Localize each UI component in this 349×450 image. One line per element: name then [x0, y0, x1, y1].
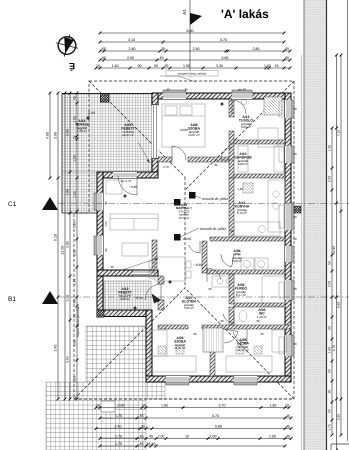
svg-text:Rejtett medergerenda: Rejtett medergerenda	[76, 306, 80, 337]
svg-text:5.80: 5.80	[222, 56, 229, 60]
svg-text:1.80: 1.80	[270, 403, 277, 407]
svg-text:1.75: 1.75	[115, 434, 122, 438]
svg-text:-0,03: -0,03	[87, 111, 94, 115]
svg-text:3.10: 3.10	[128, 38, 135, 42]
svg-text:45: 45	[152, 442, 156, 446]
svg-text:30: 30	[214, 163, 218, 167]
svg-text:monolit vb. pillér: monolit vb. pillér	[200, 227, 227, 231]
svg-text:2.66: 2.66	[127, 56, 134, 60]
svg-text:95: 95	[328, 390, 332, 394]
svg-text:80: 80	[256, 319, 260, 323]
svg-text:2.05: 2.05	[66, 295, 70, 302]
svg-text:45: 45	[160, 56, 164, 60]
svg-text:11.00: 11.00	[61, 246, 65, 255]
svg-text:3.60: 3.60	[66, 356, 70, 363]
svg-text:65: 65	[102, 56, 106, 60]
svg-text:5,00 m²: 5,00 m²	[232, 259, 242, 263]
svg-text:8.60: 8.60	[337, 302, 341, 309]
svg-text:12,47 m²: 12,47 m²	[237, 348, 249, 352]
svg-text:1.55: 1.55	[73, 191, 77, 198]
svg-text:7.10: 7.10	[337, 130, 341, 137]
svg-text:65: 65	[102, 47, 106, 51]
svg-text:É: É	[69, 61, 75, 71]
svg-text:2.00: 2.00	[158, 434, 165, 438]
svg-text:90: 90	[293, 287, 297, 291]
svg-text:1.85: 1.85	[73, 376, 77, 383]
svg-text:2.80: 2.80	[129, 47, 136, 51]
svg-text:2.80: 2.80	[253, 47, 260, 51]
svg-text:10: 10	[142, 403, 146, 407]
svg-text:30: 30	[141, 424, 145, 428]
svg-text:45: 45	[286, 434, 290, 438]
svg-text:+0,30: +0,30	[194, 263, 202, 267]
svg-text:2.85: 2.85	[66, 241, 70, 248]
svg-text:5.80: 5.80	[215, 424, 222, 428]
svg-text:12,97 m²: 12,97 m²	[122, 133, 134, 137]
svg-text:15: 15	[73, 136, 77, 140]
svg-text:45: 45	[73, 96, 77, 100]
svg-text:45: 45	[140, 434, 144, 438]
svg-text:3.30: 3.30	[216, 64, 223, 68]
svg-text:45: 45	[140, 442, 144, 446]
svg-text:4.70: 4.70	[332, 345, 336, 352]
svg-text:90: 90	[110, 265, 114, 269]
svg-text:3.95: 3.95	[66, 129, 70, 136]
svg-text:30: 30	[161, 47, 165, 51]
svg-text:65: 65	[285, 56, 289, 60]
svg-text:±0,00: ±0,00	[183, 237, 191, 241]
svg-text:1.60: 1.60	[269, 434, 276, 438]
svg-text:2.05: 2.05	[118, 403, 125, 407]
svg-text:45: 45	[73, 300, 77, 304]
svg-text:1.75: 1.75	[115, 414, 122, 418]
svg-text:1.40: 1.40	[73, 279, 77, 286]
svg-text:3,80 m²: 3,80 m²	[238, 162, 248, 166]
svg-text:90: 90	[260, 332, 264, 336]
svg-text:15: 15	[275, 64, 279, 68]
svg-text:90: 90	[293, 107, 297, 111]
svg-text:3,06 m²: 3,06 m²	[241, 125, 251, 129]
svg-text:10: 10	[185, 434, 189, 438]
svg-text:90: 90	[208, 287, 212, 291]
svg-text:1.60: 1.60	[73, 340, 77, 347]
svg-text:1.40: 1.40	[237, 187, 243, 191]
svg-text:4,00 m²: 4,00 m²	[120, 297, 130, 301]
svg-text:10: 10	[285, 403, 289, 407]
svg-text:1,40 m²: 1,40 m²	[257, 315, 267, 319]
svg-text:2.40: 2.40	[115, 424, 122, 428]
svg-text:1.75: 1.75	[328, 424, 332, 431]
svg-text:1.00: 1.00	[104, 221, 108, 227]
svg-text:65: 65	[154, 64, 158, 68]
svg-text:50: 50	[328, 369, 332, 373]
svg-text:1.55: 1.55	[264, 64, 271, 68]
svg-text:45: 45	[147, 442, 151, 446]
svg-text:1.80: 1.80	[161, 403, 168, 407]
svg-text:A1: A1	[182, 9, 187, 15]
svg-text:2.85: 2.85	[337, 414, 341, 421]
svg-text:1.55: 1.55	[183, 64, 190, 68]
svg-text:65: 65	[285, 47, 289, 51]
svg-text:C1: C1	[8, 201, 17, 208]
svg-text:90: 90	[104, 201, 108, 205]
svg-text:50: 50	[328, 409, 332, 413]
svg-text:pm 30: pm 30	[238, 88, 246, 92]
svg-text:13,87 m²: 13,87 m²	[188, 133, 200, 137]
svg-text:1.60: 1.60	[328, 347, 332, 354]
svg-text:1.30: 1.30	[73, 222, 77, 229]
svg-text:5,06 m²: 5,06 m²	[184, 306, 194, 310]
svg-text:90: 90	[138, 64, 142, 68]
svg-text:90: 90	[166, 88, 170, 92]
svg-text:45: 45	[149, 434, 153, 438]
svg-text:6,47 m²: 6,47 m²	[236, 293, 246, 297]
svg-text:2.00: 2.00	[210, 434, 217, 438]
svg-text:2.00: 2.00	[328, 176, 332, 183]
svg-text:90: 90	[104, 248, 108, 252]
svg-text:+0,30: +0,30	[129, 185, 137, 189]
svg-text:B1: B1	[8, 296, 16, 303]
svg-text:80: 80	[220, 319, 224, 323]
svg-text:1.80: 1.80	[73, 155, 77, 162]
svg-text:8.80: 8.80	[187, 29, 194, 33]
svg-text:45: 45	[286, 424, 290, 428]
svg-text:60: 60	[230, 229, 234, 233]
svg-text:am 2.70: am 2.70	[121, 179, 132, 183]
svg-text:60: 60	[293, 152, 297, 156]
svg-text:1.55: 1.55	[73, 116, 77, 123]
svg-text:3.70: 3.70	[219, 403, 226, 407]
svg-text:1.30: 1.30	[73, 250, 77, 257]
svg-text:-0,03: -0,03	[135, 296, 142, 300]
svg-text:45: 45	[286, 414, 290, 418]
svg-text:4.00: 4.00	[46, 132, 50, 139]
svg-text:1.90: 1.90	[328, 145, 332, 152]
svg-text:6.70: 6.70	[212, 414, 219, 418]
svg-text:31.90: 31.90	[332, 246, 336, 254]
svg-text:1.40: 1.40	[112, 64, 119, 68]
svg-text:7,90 m²: 7,90 m²	[77, 129, 87, 133]
svg-text:35: 35	[165, 64, 169, 68]
svg-text:5.15: 5.15	[54, 234, 58, 241]
svg-text:50: 50	[328, 326, 332, 330]
svg-text:15: 15	[96, 64, 100, 68]
svg-text:1.75: 1.75	[115, 442, 122, 446]
svg-text:±0,00: ±0,00	[180, 128, 188, 132]
svg-text:30: 30	[184, 88, 188, 92]
svg-text:3.95: 3.95	[54, 132, 58, 139]
svg-text:1.95: 1.95	[66, 189, 70, 196]
svg-text:60: 60	[293, 237, 297, 241]
svg-text:3.45: 3.45	[54, 345, 58, 352]
svg-text:95: 95	[73, 314, 77, 318]
svg-text:90: 90	[293, 342, 297, 346]
svg-text:6,76 m²: 6,76 m²	[237, 211, 247, 215]
svg-text:50: 50	[328, 261, 332, 265]
svg-text:'A' lakás: 'A' lakás	[221, 7, 269, 21]
svg-text:90: 90	[193, 332, 197, 336]
svg-text:60: 60	[293, 215, 297, 219]
svg-text:45: 45	[140, 414, 144, 418]
svg-text:11,87 m²: 11,87 m²	[174, 346, 186, 350]
svg-text:10: 10	[96, 403, 100, 407]
svg-text:szegett hőszig. vakolat: szegett hőszig. vakolat	[178, 72, 207, 76]
svg-text:3.00: 3.00	[328, 281, 332, 288]
svg-text:2.90: 2.90	[193, 47, 200, 51]
svg-text:2.70: 2.70	[163, 165, 169, 169]
svg-text:monolit vb. pillér: monolit vb. pillér	[202, 197, 229, 201]
svg-text:6.70: 6.70	[220, 38, 227, 42]
svg-text:25,04 m²: 25,04 m²	[179, 217, 190, 220]
svg-text:90: 90	[214, 158, 218, 162]
